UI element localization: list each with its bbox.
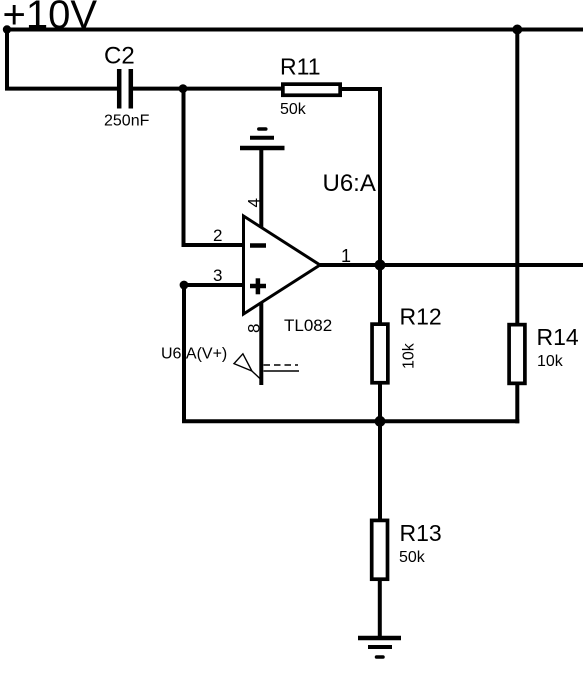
resistor R13 body xyxy=(372,520,388,579)
svg-text:C2: C2 xyxy=(104,43,135,70)
svg-text:50k: 50k xyxy=(280,101,307,118)
svg-text:TL082: TL082 xyxy=(284,316,332,335)
svg-text:U6:A(V+): U6:A(V+) xyxy=(161,346,227,363)
svg-text:1: 1 xyxy=(341,246,351,266)
wire down from R11 to output node xyxy=(378,87,382,265)
wire left vertical down to bottom rail xyxy=(182,285,186,421)
wire R12 bottom xyxy=(378,383,382,421)
wire op-amp output xyxy=(320,263,583,267)
power bar symbol above op-amp (inverted ground) xyxy=(240,129,285,148)
wire R14 from +10V rail xyxy=(515,30,519,325)
wire left vertical from +10V rail xyxy=(5,30,9,89)
junction dot at C2 output node xyxy=(179,84,188,93)
svg-text:R13: R13 xyxy=(400,520,442,546)
svg-text:R14: R14 xyxy=(537,324,579,350)
wire to C2 left plate xyxy=(5,87,117,91)
wire R13 bottom xyxy=(378,580,382,638)
op-amp U6:A triangle xyxy=(244,216,321,314)
wire R13 top xyxy=(378,421,382,520)
svg-text:250nF: 250nF xyxy=(104,113,150,130)
wire bottom horizontal rail xyxy=(182,419,519,423)
svg-text:10k: 10k xyxy=(401,342,418,369)
ground symbol xyxy=(358,638,401,657)
svg-text:R11: R11 xyxy=(280,54,321,80)
junction dot bottom node xyxy=(375,416,386,427)
junction dot at pin 3 xyxy=(180,281,189,290)
wire R11 right xyxy=(342,87,380,91)
pin 8 line (V+ power pin) xyxy=(259,303,263,385)
wire down to inverting input xyxy=(182,89,186,245)
wire R12 top xyxy=(378,265,382,324)
svg-text:2: 2 xyxy=(213,226,222,245)
resistor R14 body xyxy=(509,325,525,384)
junction dot top-left xyxy=(3,25,11,33)
svg-text:8: 8 xyxy=(244,324,263,333)
capacitor C2 xyxy=(119,69,131,109)
wire R14 bottom xyxy=(515,384,519,423)
svg-text:10k: 10k xyxy=(537,353,564,370)
resistor R12 body xyxy=(372,324,388,383)
minus symbol (inverting input) xyxy=(250,243,266,248)
pin 4 line (V- power pin) xyxy=(259,148,263,228)
junction dot top-right (R14 branch) xyxy=(512,25,522,35)
svg-text:4: 4 xyxy=(244,198,263,207)
svg-text:3: 3 xyxy=(213,266,222,285)
svg-text:50k: 50k xyxy=(399,549,426,566)
V+ power terminal flag xyxy=(234,354,299,381)
svg-text:U6:A: U6:A xyxy=(323,170,376,197)
resistor R11 body xyxy=(283,84,340,95)
wire pin 2 horizontal xyxy=(182,243,243,247)
wire pin 3 horizontal xyxy=(184,283,242,287)
plus symbol (non-inverting input) xyxy=(250,278,266,294)
svg-text:+10V: +10V xyxy=(3,0,98,37)
wire C2 right plate to R11 xyxy=(133,87,281,91)
svg-text:R12: R12 xyxy=(400,304,442,330)
wire top +10V rail xyxy=(5,28,583,32)
junction dot at output node xyxy=(375,260,386,271)
